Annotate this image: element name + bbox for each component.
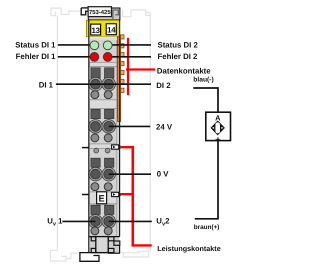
function earth box E	[97, 192, 107, 204]
release hole block2 right	[104, 134, 112, 142]
svg-text:0 V: 0 V	[157, 170, 170, 179]
svg-text:DI 2: DI 2	[156, 81, 171, 90]
svg-text:24 V: 24 V	[156, 123, 173, 132]
svg-text:braun(+): braun(+)	[194, 224, 220, 231]
tick power contact left upper	[82, 147, 89, 149]
svg-text:Fehler DI 1: Fehler DI 1	[16, 52, 57, 61]
wire Fehler DI 2	[110, 56, 152, 58]
LED Fehler DI 2	[103, 53, 112, 62]
wire braun	[195, 141, 218, 219]
release hole block3 right	[104, 183, 112, 191]
svg-text:Datenkontakte: Datenkontakte	[157, 67, 211, 76]
jumper hole block3 left	[94, 148, 99, 153]
terminal Uv2	[102, 215, 116, 229]
LED Fehler DI 1	[90, 53, 99, 62]
release hole block3 left	[91, 183, 99, 191]
svg-text:blau(-): blau(-)	[193, 77, 213, 84]
svg-text:Status DI 1: Status DI 1	[15, 40, 56, 49]
latch hook	[81, 8, 88, 15]
wire blau	[193, 88, 218, 112]
clamp squares block 1	[91, 68, 114, 215]
svg-text:753-425: 753-425	[89, 9, 111, 16]
release hole block1 left	[91, 91, 99, 99]
terminal number 14	[106, 24, 116, 35]
data contact tabs	[121, 35, 125, 93]
tick power contact left lower	[82, 194, 89, 196]
module side borders	[88, 20, 90, 253]
power jumper contact upper	[112, 145, 121, 149]
release hole block1 right	[104, 91, 112, 99]
terminal DI 1	[89, 77, 103, 91]
release lever	[80, 253, 99, 262]
divider bands	[89, 62, 117, 204]
release hole block2 left	[91, 134, 99, 142]
svg-text:DI 1: DI 1	[39, 80, 54, 89]
terminal block2 left	[89, 120, 103, 134]
terminal DI 2	[102, 77, 116, 91]
jumper hole block3 right	[105, 148, 110, 153]
module body	[89, 20, 120, 237]
cap right hook	[113, 10, 118, 19]
svg-text:Status DI 2: Status DI 2	[158, 41, 199, 50]
module cap	[88, 8, 120, 20]
terminal 24V	[102, 120, 116, 134]
right neighbour module outline	[121, 10, 151, 257]
release hole block4 right	[104, 227, 112, 235]
LED Status DI 2	[103, 41, 112, 50]
red marker Leistungskontakte	[121, 146, 152, 247]
module foot	[80, 237, 120, 262]
wire Uv1	[62, 220, 95, 222]
release hole block4 left	[91, 227, 99, 235]
wire Status DI 1	[58, 44, 93, 46]
terminal number 13	[91, 24, 101, 35]
sensor diamond	[212, 122, 224, 135]
current sensor box	[206, 112, 231, 140]
power jumper contact lower	[112, 192, 121, 196]
red marker Datenkontakte	[126, 38, 155, 95]
terminal 0V	[102, 167, 116, 181]
wire Uv2	[109, 220, 152, 222]
wire 24 V	[109, 125, 151, 127]
svg-text:Fehler DI 2: Fehler DI 2	[158, 52, 199, 61]
svg-text:Leistungskontakte: Leistungskontakte	[157, 244, 221, 253]
svg-text:13: 13	[92, 26, 101, 35]
label 753-425	[88, 7, 111, 17]
terminal Uv1	[89, 215, 103, 229]
left neighbour module outline	[51, 8, 81, 261]
band under plate	[89, 37, 119, 40]
wire Status DI 2	[110, 44, 152, 46]
terminal block3 left	[89, 167, 103, 181]
plus mark	[216, 137, 221, 142]
wire DI 1 / DI 2	[56, 83, 151, 85]
svg-text:E: E	[99, 194, 105, 204]
svg-text:14: 14	[107, 26, 116, 35]
orange jumper strip	[118, 37, 121, 122]
wire Fehler DI 1	[58, 56, 93, 58]
wire 0 V	[109, 173, 151, 175]
marking plate yellow	[86, 20, 119, 36]
LED Status DI 1	[90, 41, 99, 50]
inner right shading	[116, 40, 118, 237]
